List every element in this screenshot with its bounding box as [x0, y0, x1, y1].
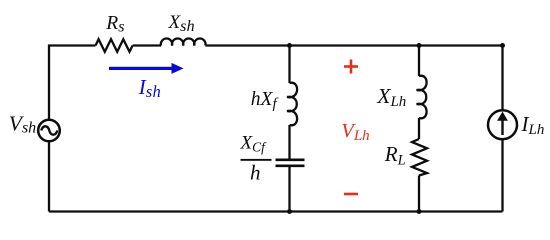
wire between XLh and RL — [418, 118, 420, 139]
current source arrow — [497, 112, 508, 136]
ac source V_sh circle — [38, 120, 60, 142]
inductor X_sh — [161, 39, 206, 46]
wire right branch bottom — [501, 139, 503, 211]
svg-text:h: h — [250, 160, 261, 184]
wire right branch top — [501, 46, 503, 111]
svg-text:VLh: VLh — [341, 120, 369, 144]
svg-text:XLh: XLh — [376, 84, 406, 110]
resistor R_s — [96, 39, 133, 52]
svg-text:hXf: hXf — [251, 89, 279, 112]
sine wave inside source — [41, 126, 57, 134]
plus sign (red) — [344, 60, 358, 74]
blue current arrow I_sh — [109, 63, 184, 74]
wire left lower segment — [48, 141, 50, 211]
fraction bar — [241, 159, 272, 161]
inductor hX_f — [287, 83, 297, 126]
wire middle branch mid — [288, 125, 290, 159]
svg-text:Xsh: Xsh — [168, 12, 195, 35]
wire top right segment — [205, 44, 502, 46]
current source I_Lh circle — [488, 110, 517, 139]
wire right-mid branch top — [418, 46, 420, 77]
svg-text:RL: RL — [384, 142, 406, 168]
wire top left segment — [49, 46, 96, 120]
inductor X_Lh — [417, 76, 427, 119]
wire middle branch bottom — [288, 166, 290, 212]
capacitor X_Cf/h plates — [276, 159, 305, 162]
svg-text:Vsh: Vsh — [9, 111, 36, 136]
svg-text:XCf: XCf — [240, 133, 268, 155]
wire bottom — [49, 210, 503, 212]
resistor R_L — [412, 139, 427, 176]
wire middle branch top — [288, 46, 290, 84]
wire right-mid branch bottom — [418, 176, 420, 212]
wire between Rs and Xsh — [133, 44, 161, 46]
minus sign (red) — [344, 193, 358, 196]
svg-text:Rs: Rs — [105, 13, 124, 36]
svg-text:Ish: Ish — [138, 75, 161, 101]
svg-text:ILh: ILh — [521, 112, 545, 138]
